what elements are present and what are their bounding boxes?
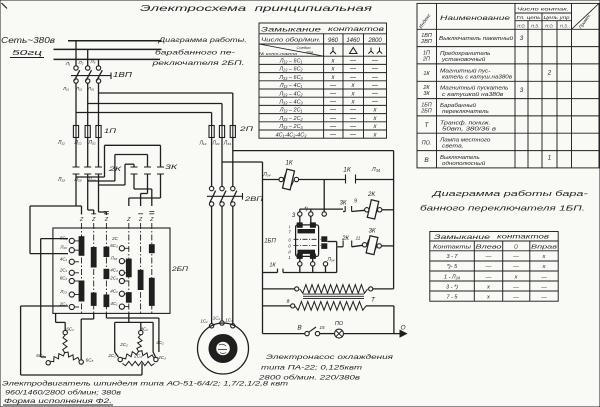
coil 3К: [362, 228, 393, 255]
svg-text:Z: Z: [79, 217, 84, 223]
contactor 3К main contacts: [131, 165, 178, 174]
svg-text:Л₁₃ – 6С₁: Л₁₃ – 6С₁: [279, 59, 303, 65]
svg-text:—: —: [349, 67, 357, 73]
svg-text:—: —: [371, 91, 379, 97]
svg-text:Н.О.: Н.О.: [545, 23, 553, 28]
svg-text:2С₁: 2С₁: [59, 267, 68, 272]
wire: nested rails feeding 3К contacts: [76, 145, 161, 185]
net label Сеть ~380в 50гц: [1, 36, 55, 58]
svg-text:*)- 5: *)- 5: [447, 264, 458, 270]
svg-text:Л₂₄: Л₂₄: [262, 172, 270, 178]
svg-text:6С₃: 6С₃: [110, 243, 118, 248]
svg-text:—: —: [329, 132, 337, 138]
wire: 1ВП to fuses 1П and branches to 2П: [76, 83, 233, 125]
svg-text:Выключатель: Выключатель: [440, 155, 480, 161]
svg-text:Предохранитель: Предохранитель: [440, 51, 491, 57]
svg-text:Л₁₂: Л₁₂: [57, 140, 65, 146]
switch 1ВП (3-pole packet switch): [62, 59, 133, 91]
svg-text:2БП: 2БП: [171, 266, 189, 273]
svg-text:7 - 5: 7 - 5: [446, 295, 458, 301]
svg-text:9: 9: [354, 199, 357, 205]
svg-text:2800: 2800: [367, 38, 382, 44]
svg-text:в: в: [287, 299, 290, 305]
corner mark: [2, 3, 8, 9]
svg-text:Л₂₄: Л₂₄: [211, 141, 219, 147]
svg-text:Z: Z: [126, 217, 131, 223]
svg-text:Н.О.: Н.О.: [517, 23, 525, 28]
svg-text:3К: 3К: [165, 165, 178, 171]
svg-text:6С₁: 6С₁: [66, 327, 74, 332]
svg-text:1С₁: 1С₁: [200, 319, 208, 324]
svg-text:2С₃: 2С₃: [109, 276, 118, 281]
svg-text:Диаграмма работы.: Диаграмма работы.: [157, 36, 246, 44]
wire: bus taps to 1ВП: [76, 41, 99, 66]
note: spindle motor text: [2, 381, 288, 406]
svg-text:ПО.: ПО.: [422, 140, 432, 146]
wire: 2ВП to cooling pump: [212, 206, 233, 324]
drum 2БП left terminals: [59, 235, 79, 309]
svg-text:В: В: [424, 157, 429, 164]
transformer Т secondary: [263, 297, 394, 334]
svg-text:Магнитный пус-: Магнитный пус-: [440, 67, 491, 74]
svg-text:1460: 1460: [346, 38, 360, 44]
phase bus L1: [68, 40, 162, 42]
svg-text:—: —: [329, 108, 337, 114]
svg-text:2С₃: 2С₃: [133, 354, 142, 359]
svg-text:Л₁₃: Л₁₃: [59, 245, 67, 250]
svg-text:—: —: [512, 254, 519, 260]
svg-text:Число контак.: Число контак.: [517, 7, 569, 12]
svg-text:—: —: [349, 108, 357, 114]
svg-text:Л₂₂: Л₂₂: [73, 140, 81, 146]
svg-text:3К: 3К: [368, 228, 375, 235]
svg-text:6С₁: 6С₁: [60, 235, 68, 240]
switch В: [263, 325, 325, 336]
svg-text:2С₁: 2С₁: [107, 353, 116, 358]
svg-text:реключателя 2БП.: реключателя 2БП.: [151, 60, 245, 67]
svg-text:Л₂₃ – 4С₂: Л₂₃ – 4С₂: [278, 91, 303, 97]
svg-text:*): *): [304, 207, 308, 213]
svg-text:Л₁₄: Л₁₄: [198, 141, 206, 147]
svg-text:Влево: Влево: [476, 245, 502, 251]
svg-text:ПО: ПО: [335, 321, 344, 327]
svg-text:1К: 1К: [423, 71, 430, 77]
title: Электросхема принципиальная: [140, 4, 373, 13]
svg-text:обм.: обм.: [306, 50, 314, 55]
svg-text:Диаграмма работы бара-: Диаграмма работы бара-: [431, 189, 589, 198]
svg-text:В: В: [297, 325, 302, 332]
svg-text:Форма исполнения Ф2.: Форма исполнения Ф2.: [4, 398, 112, 405]
wire: phase Л24 feed to control circuit: [222, 162, 263, 334]
wire: left routing to winding terminals: [21, 206, 76, 375]
svg-text:Контакты: Контакты: [433, 245, 471, 251]
svg-text:6С₃: 6С₃: [86, 358, 94, 363]
note: diagram of drum switch 2BP: [151, 36, 247, 67]
svg-text:1: 1: [548, 154, 551, 161]
drum switch 1БП: [264, 216, 334, 266]
table: замыкание контактов 2БП: [259, 23, 387, 138]
svg-text:1ВП: 1ВП: [113, 72, 133, 79]
svg-text:Л₂₃: Л₂₃: [73, 177, 81, 183]
svg-text:Л₁₃ – 4С₁: Л₁₃ – 4С₁: [279, 83, 303, 89]
svg-text:Электродвигатель шпинделя типа: Электродвигатель шпинделя типа АО-51-6/4…: [2, 381, 288, 388]
svg-text:1К: 1К: [285, 160, 292, 167]
svg-text:Л₁: Л₁: [65, 61, 71, 66]
svg-text:1П: 1П: [104, 129, 117, 135]
contactor 2К main contacts: [57, 138, 122, 184]
svg-text:—: —: [540, 274, 547, 280]
svg-text:Л₃₃ – 6С₃: Л₃₃ – 6С₃: [278, 75, 303, 81]
svg-text:Цепь упр: Цепь упр: [544, 15, 571, 20]
svg-text:однополюсный: однополюсный: [442, 160, 485, 167]
svg-text:Н.З.: Н.З.: [531, 23, 539, 28]
svg-text:—: —: [485, 264, 492, 270]
svg-text:—: —: [512, 284, 519, 290]
svg-text:4С₂: 4С₂: [156, 340, 164, 345]
wire: 2П fuses down to 2ВП: [212, 138, 233, 187]
svg-text:Z: Z: [91, 217, 96, 223]
wire: from contacts down to drum switch 2БП: [76, 174, 161, 215]
svg-text:Z: Z: [138, 217, 143, 223]
svg-text:—: —: [371, 83, 379, 89]
svg-text:—: —: [329, 100, 337, 106]
drum 2БП contact segments: [79, 237, 154, 307]
svg-text:Трансф. пониж.: Трансф. пониж.: [440, 120, 490, 126]
wire: phase Л34 feed to control circuit: [233, 151, 394, 289]
svg-text:960/1460/2800 об/мин; 380в: 960/1460/2800 об/мин; 380в: [5, 390, 122, 397]
svg-text:2БП: 2БП: [420, 108, 432, 114]
winding star 6С: [36, 327, 93, 365]
svg-text:Электронасос охлаждения: Электронасос охлаждения: [266, 353, 394, 361]
fuse group 2П: [198, 126, 254, 147]
svg-text:Л₁₃: Л₁₃: [57, 177, 65, 183]
svg-text:Магнитный пускатель: Магнитный пускатель: [440, 85, 509, 92]
svg-text:Электросхема принципиальная: Электросхема принципиальная: [140, 4, 373, 13]
coil 1К: [279, 160, 299, 190]
svg-text:—: —: [329, 116, 337, 122]
svg-text:1К: 1К: [269, 263, 276, 269]
wire: 1БП terminals to bottom rail: [300, 242, 337, 273]
table: замыкание контактов 1БП: [430, 232, 558, 302]
svg-text:—: —: [485, 254, 492, 260]
wire: drum to 6С winding: [56, 313, 94, 359]
svg-text:—: —: [540, 295, 547, 301]
svg-text:2П: 2П: [238, 127, 254, 133]
svg-text:Л₂₄: Л₂₄: [326, 257, 334, 263]
svg-text:2ВП: 2ВП: [420, 39, 432, 45]
svg-text:№ конт-такта: № конт-такта: [259, 51, 298, 56]
svg-text:—: —: [349, 132, 357, 138]
svg-text:2К: 2К: [367, 191, 375, 198]
table: component list: [417, 3, 599, 168]
svg-text:Л₃₃: Л₃₃: [110, 256, 118, 261]
svg-text:Л₃₂: Л₃₂: [87, 140, 95, 146]
svg-text:1С₂: 1С₂: [213, 316, 221, 321]
svg-text:света.: света.: [442, 144, 464, 150]
svg-text:контактов: контактов: [328, 26, 385, 33]
svg-text:Л₃: Л₃: [90, 59, 96, 64]
svg-text:Выключатель пакетный: Выключатель пакетный: [439, 35, 513, 42]
svg-text:1С₃: 1С₃: [225, 318, 233, 323]
wire: bottom long run: [21, 364, 142, 376]
contact 1К (N.O.): [343, 167, 380, 184]
svg-text:3К: 3К: [423, 91, 430, 97]
svg-text:3К: 3К: [340, 201, 347, 207]
svg-text:960: 960: [328, 38, 339, 44]
svg-text:3: 3: [520, 35, 524, 42]
svg-text:1 - Л₂₄: 1 - Л₂₄: [444, 274, 460, 280]
table 2БП texts: [259, 26, 385, 138]
svg-text:2С: 2С: [111, 236, 119, 241]
svg-text:—: —: [512, 264, 519, 270]
wire: drum to 4С/2С winding: [106, 313, 158, 357]
svg-text:2С₂: 2С₂: [119, 342, 128, 347]
transformer Т primary: [263, 285, 394, 294]
svg-text:—: —: [485, 274, 492, 280]
svg-text:—: —: [329, 83, 337, 89]
svg-text:—: —: [329, 124, 337, 130]
svg-text:барабанного пе-: барабанного пе-: [155, 49, 236, 57]
svg-text:Замыкание: Замыкание: [434, 235, 491, 241]
phase bus L3: [54, 58, 161, 60]
svg-text:—: —: [349, 124, 357, 130]
svg-text:15: 15: [319, 325, 325, 331]
svg-text:1БП: 1БП: [421, 102, 432, 108]
svg-text:1: 1: [288, 255, 290, 260]
svg-text:контактов: контактов: [497, 235, 549, 241]
svg-text:2: 2: [547, 70, 552, 77]
svg-text:Наименование: Наименование: [440, 15, 511, 22]
svg-text:переключатель: переключатель: [442, 109, 489, 115]
svg-text:1П: 1П: [423, 50, 430, 56]
contact 1К auxiliary on bottom rail: [263, 263, 337, 273]
cooling pump motor: [198, 316, 249, 375]
svg-text:4С₁: 4С₁: [60, 256, 68, 261]
svg-text:4С₂: 4С₂: [110, 288, 118, 293]
svg-text:1БП: 1БП: [264, 239, 276, 245]
note: diagram of drum switch 1БП: [420, 189, 589, 213]
svg-text:Барабанный: Барабанный: [440, 102, 476, 109]
table 1БП texts: [433, 235, 558, 301]
svg-text:—: —: [349, 75, 357, 81]
svg-text:Л₃₄: Л₃₄: [371, 167, 380, 173]
svg-text:—: —: [512, 295, 519, 301]
svg-text:4С₁-4С₂-4С₃: 4С₁-4С₂-4С₃: [276, 132, 308, 138]
svg-text:Z: Z: [104, 217, 109, 223]
svg-text:О: О: [514, 245, 518, 251]
svg-text:Л₂₃: Л₂₃: [59, 289, 67, 294]
svg-text:11: 11: [356, 236, 361, 242]
svg-text:Л₃₄: Л₃₄: [223, 141, 231, 147]
coil 2К: [365, 191, 394, 219]
svg-text:—: —: [329, 91, 337, 97]
switch 2ВП (3-pole): [207, 186, 263, 206]
svg-text:—: —: [371, 59, 379, 65]
svg-text:1К: 1К: [343, 167, 352, 174]
svg-text:Л₃₃: Л₃₃: [87, 177, 95, 183]
transformer core: [303, 294, 364, 298]
svg-text:Z: Z: [149, 217, 154, 223]
svg-text:—: —: [371, 100, 379, 106]
svg-text:3 - 7: 3 - 7: [446, 254, 458, 260]
svg-text:—: —: [371, 67, 379, 73]
svg-text:50вт, 380/36 в: 50вт, 380/36 в: [442, 126, 496, 132]
svg-text:Л₁₃ – 2С₁: Л₁₃ – 2С₁: [279, 108, 303, 114]
wire: row 2 rail and node 3: [292, 180, 343, 220]
svg-text:Лампа местного: Лампа местного: [439, 138, 491, 144]
svg-text:6С₂: 6С₂: [36, 353, 44, 358]
svg-text:Л₃₃ – 4С₃: Л₃₃ – 4С₃: [278, 100, 303, 106]
svg-text:Л₁₁: Л₁₁: [62, 86, 69, 91]
svg-text:—: —: [349, 59, 357, 65]
svg-text:1ВП: 1ВП: [421, 33, 432, 39]
svg-text:Л₂: Л₂: [78, 60, 84, 65]
svg-text:Н.З.: Н.З.: [560, 23, 568, 28]
svg-text:50гц: 50гц: [12, 48, 43, 57]
svg-text:2П: 2П: [422, 56, 430, 62]
svg-text:2ВП: 2ВП: [244, 196, 264, 203]
svg-text:2К: 2К: [341, 236, 349, 242]
fuse group 1П: [57, 126, 117, 147]
drum switch 2БП: [53, 212, 188, 314]
phase bus L2: [54, 48, 162, 50]
svg-text:3 - *): 3 - *): [446, 284, 458, 290]
svg-text:Сеть~380в: Сеть~380в: [1, 36, 55, 45]
svg-text:2К: 2К: [422, 85, 430, 91]
svg-text:—: —: [540, 284, 547, 290]
svg-text:2С₂: 2С₂: [59, 302, 68, 307]
svg-text:Замыкание: Замыкание: [261, 27, 322, 34]
svg-text:—: —: [349, 116, 357, 122]
wire: control circuit top rail: [262, 172, 393, 180]
svg-text:2800 об/мин. 220/380в: 2800 об/мин. 220/380в: [258, 374, 361, 382]
contact 2К (N.O.) node 11: [337, 236, 362, 247]
svg-text:Л₃₃ – 2С₃: Л₃₃ – 2С₃: [278, 124, 303, 130]
svg-text:4С₁: 4С₁: [110, 301, 118, 306]
svg-text:6С₂: 6С₂: [60, 276, 68, 281]
svg-text:4С₃: 4С₃: [110, 267, 118, 272]
note: cooling pump text: [258, 353, 394, 382]
lamp ПО: [320, 321, 344, 338]
contact 3К (N.O.) node 9: [340, 199, 365, 212]
svg-text:банного переключателя 1БП.: банного переключателя 1БП.: [420, 204, 585, 213]
wire: lamp to terminal О with arrow: [344, 325, 407, 337]
svg-text:Гл. цепь: Гл. цепь: [517, 15, 541, 20]
svg-text:3: 3: [520, 87, 524, 94]
svg-text:Л₂₃ – 6С₂: Л₂₃ – 6С₂: [278, 67, 303, 73]
svg-text:установочный: установочный: [441, 56, 486, 63]
svg-text:—: —: [371, 75, 379, 81]
drum 2БП middle terminals: [109, 236, 129, 309]
svg-text:4С₃: 4С₃: [158, 355, 166, 360]
component table texts: [418, 7, 592, 168]
svg-text:типа ПА-22; 0,125квт: типа ПА-22; 0,125квт: [261, 365, 363, 372]
svg-text:4С₁: 4С₁: [140, 327, 148, 332]
svg-text:Л₂₃ – 2С₂: Л₂₃ – 2С₂: [278, 116, 303, 122]
svg-text:катель с катуш.на380в: катель с катуш.на380в: [442, 74, 512, 80]
winding star 4С/2С: [107, 327, 166, 366]
svg-text:с катушкой на380в: с катушкой на380в: [442, 91, 504, 98]
svg-text:Число обор/мин.: Число обор/мин.: [261, 38, 321, 44]
svg-text:Вправ: Вправ: [531, 245, 558, 251]
